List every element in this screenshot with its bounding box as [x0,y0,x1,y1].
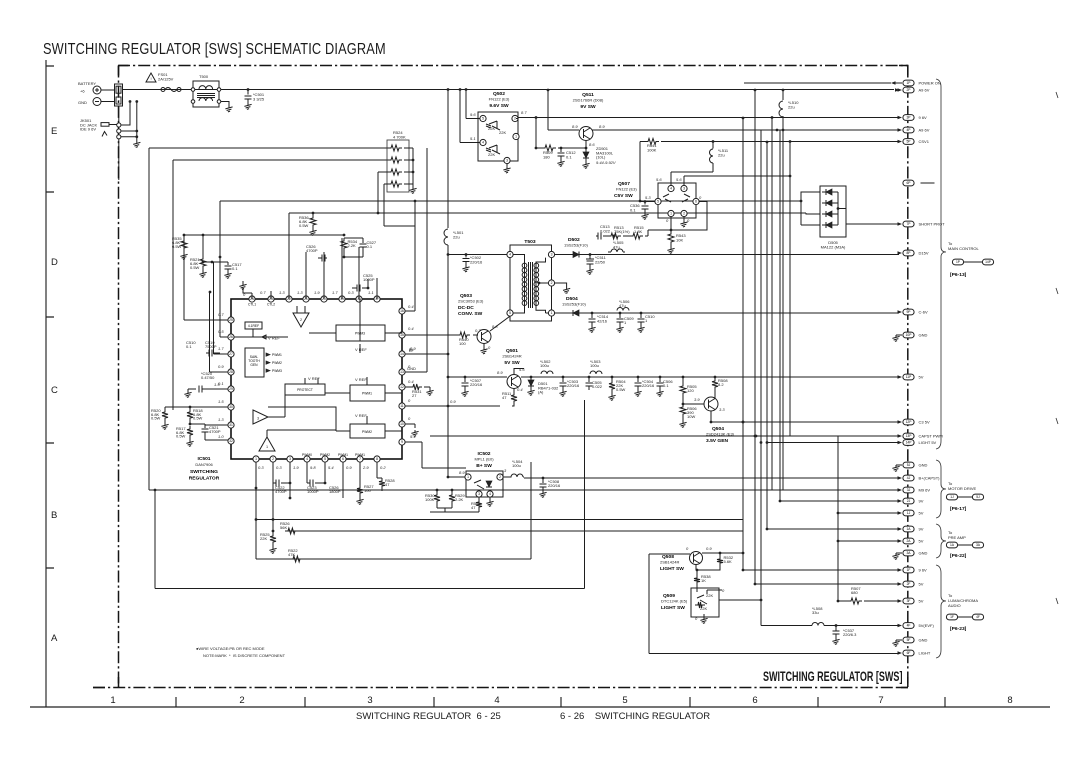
cap C523 1000P [310,480,313,487]
connector pin 5J GND [903,462,914,468]
svg-text:8: 8 [1007,695,1012,706]
svg-text:5.6: 5.6 [676,177,682,182]
svg-text:5: 5 [622,695,627,706]
svg-text:3: 3 [289,457,291,461]
wire pin14 B+ [405,353,448,355]
bus vertical 2 [754,90,756,584]
res R538 1K [694,575,700,585]
cap C521 4700P [204,424,206,428]
IC501 pin 28 [228,369,234,375]
wire rail 531 [288,530,743,532]
svg-text:CONV. SW: CONV. SW [458,311,483,317]
res R503 47 [478,497,480,499]
svg-text:22/50: 22/50 [595,259,606,264]
resistor R515 1.8K [623,235,630,237]
svg-text:4F: 4F [907,624,911,628]
svg-text:4: 4 [489,492,491,496]
svg-text:2.2K: 2.2K [348,243,357,248]
connector pin 2A 5V [903,538,914,544]
svg-text:0.4: 0.4 [408,326,414,331]
svg-text:C5V SW: C5V SW [614,193,633,199]
svg-text:C3 5V: C3 5V [919,420,930,425]
svg-text:22K: 22K [700,606,707,611]
svg-text:5: 5 [509,311,511,315]
svg-text:4: 4 [306,457,308,461]
wire Q511 base feed [548,90,579,130]
svg-text:1: 1 [118,89,120,93]
connector pin 8P D15V [903,250,914,256]
IC501 pin 20 [321,296,327,302]
IC right pin wires [405,148,500,468]
svg-text:●WIRE VOLTAGE:PB OR REC MODE: ●WIRE VOLTAGE:PB OR REC MODE [196,646,265,651]
svg-text:1: 1 [551,311,553,315]
connector pin 3A GND [903,550,914,556]
bus vertical 6 [779,130,781,501]
diode block D505 [820,186,846,237]
svg-text:IDE 9 6V: IDE 9 6V [80,127,96,132]
svg-text:8.9: 8.9 [599,124,605,129]
connector pin 2J 9V [903,498,914,504]
svg-text:MPL1 (E0): MPL1 (E0) [474,457,494,462]
svg-text:1800P: 1800P [329,489,341,494]
svg-text:0: 0 [408,416,411,421]
connector pin 3P 9 6V [903,115,914,121]
svg-text:REGULATOR: REGULATOR [189,476,220,482]
svg-text:(10L): (10L) [596,155,606,160]
transistor block Q509 [691,588,719,617]
bus vertical 5 [771,118,773,491]
svg-text:0.4: 0.4 [408,379,414,384]
IC502 block [466,471,503,497]
svg-text:1: 1 [255,457,257,461]
bus junction dots [742,117,745,120]
svg-text:9V SW: 9V SW [580,104,596,110]
IC501 pin 25 [228,317,234,323]
svg-text:5.6K: 5.6K [724,559,733,564]
svg-text:3 3/25: 3 3/25 [253,97,265,102]
svg-text:4 700K: 4 700K [393,135,406,140]
svg-text:5J: 5J [976,495,980,499]
svg-text:16: 16 [400,309,404,313]
svg-text:0.4: 0.4 [408,304,414,309]
wire LIGHT rail [700,653,899,655]
IC501 comparator 2 [293,313,309,327]
connector pin 10P GND [903,332,914,338]
wire 9V rail A [767,528,899,530]
svg-text:BATTERY: BATTERY [78,81,96,86]
svg-text:4700P: 4700P [306,248,318,253]
svg-text:V REF: V REF [268,336,280,341]
IC501 vref box [245,322,262,329]
capacitor C514 [591,312,594,315]
svg-text:2SD2413K (E3): 2SD2413K (E3) [706,432,735,437]
bus vertical 4 [766,142,768,529]
svg-text:2.9: 2.9 [362,465,369,470]
bracket To PRE AMP [936,524,946,558]
capacitor C511 [589,253,592,256]
IC501 pin 1 [253,456,259,462]
connector pin 13P CAPST PWM [903,433,914,439]
svg-text:3: 3 [478,492,480,496]
svg-text:[P6-17]: [P6-17] [950,506,967,512]
wire 5V rail A [838,540,899,542]
svg-text:220/16: 220/16 [567,383,580,388]
svg-text:3: 3 [367,695,372,706]
svg-text:26: 26 [229,335,233,339]
wire 9 6V rail F [743,569,899,571]
capacitor C504 [637,376,640,379]
svg-text:0.5W: 0.5W [172,244,182,249]
svg-text:9: 9 [401,440,403,444]
connector pin 4P A9 6V [903,127,914,133]
svg-text:5.6: 5.6 [519,367,525,372]
svg-text:(A): (A) [538,390,544,395]
connector pin 3J M9 6V [903,487,914,493]
wire 5V rail F [755,583,899,585]
svg-text:9 6V: 9 6V [919,568,928,573]
svg-text:8.6: 8.6 [589,142,595,147]
capacitor C512 [560,148,562,152]
svg-text:0: 0 [488,345,491,350]
wire Q508 wiring [696,553,743,575]
svg-text:22K: 22K [499,130,506,135]
svg-text:2SD1766R (D08): 2SD1766R (D08) [573,98,604,103]
svg-text:3J: 3J [907,488,911,492]
svg-text:1: 1 [670,212,672,216]
svg-text:2: 2 [551,281,553,285]
svg-text:12P: 12P [906,420,913,424]
svg-text:1J: 1J [907,511,911,515]
connector pin 14P LIGHT 5V [903,440,914,446]
transformer T503 [510,245,552,321]
wire loop B [173,159,391,161]
IC bottom pin wires [256,462,377,498]
svg-text:GND: GND [919,638,928,643]
svg-text:2: 2 [683,212,685,216]
svg-text:DAN7906: DAN7906 [195,462,213,467]
svg-text:4: 4 [509,253,511,257]
IC501 pin 17 [374,296,380,302]
svg-text:PWM2: PWM2 [362,430,372,434]
svg-text:10P: 10P [906,333,913,337]
svg-text:CAPST PWM: CAPST PWM [919,434,943,439]
svg-text:3: 3 [506,159,508,163]
wire rail 235 [184,234,344,236]
wire 5V rail J [838,512,899,514]
svg-text:100: 100 [364,488,371,493]
IC501 pin 32 [228,438,234,444]
svg-text:2: 2 [499,475,501,479]
bus vertical 9 [837,436,839,601]
svg-text:5.6: 5.6 [656,177,662,182]
svg-text:14P: 14P [985,260,992,264]
svg-text:8.9: 8.9 [572,124,578,129]
wire Q507 bottom [671,217,684,230]
svg-text:14: 14 [400,352,404,356]
IC501 pin 5 [322,456,328,462]
schematic chain border bottom [93,687,908,689]
svg-text:8.7: 8.7 [521,110,527,115]
svg-text:MAIN CONTROL: MAIN CONTROL [948,246,979,251]
svg-text:5.1: 5.1 [470,136,476,141]
svg-text:3F: 3F [907,599,911,603]
resistor R541 100K [640,141,645,143]
svg-text:2SB1424R: 2SB1424R [660,560,679,565]
svg-text:0.1: 0.1 [630,207,636,212]
svg-text:0.5W: 0.5W [299,223,309,228]
svg-text:33u: 33u [812,610,819,615]
svg-text:!: ! [150,76,151,81]
svg-text:9.6V SW: 9.6V SW [489,103,509,109]
svg-text:1: 1 [467,475,469,479]
svg-text:100K: 100K [647,147,657,152]
coil L511 22u [712,140,715,143]
IC501 pin 26 [228,334,234,340]
svg-text:0.1: 0.1 [186,344,192,349]
bracket To LUMA/CHROMA AUDIO [936,565,946,658]
IC501 pin 7 [357,456,363,462]
svg-text:11P: 11P [906,375,912,379]
svg-text:C: C [51,385,58,396]
svg-text:0.4: 0.4 [517,387,523,392]
svg-text:15: 15 [400,333,404,337]
wire Q509 out [719,599,761,601]
svg-text:5V: 5V [919,599,924,604]
svg-text:47: 47 [502,395,507,400]
svg-text:0.3: 0.3 [276,465,282,470]
svg-text:A9 6V: A9 6V [919,88,930,93]
svg-text:31: 31 [229,423,233,427]
fold marks right edge [1056,92,1058,604]
connector pin 6P nc [903,180,914,186]
wire connector pin2 drop [118,106,120,124]
resistor R509 180 [536,147,542,149]
svg-text:2F: 2F [907,582,911,586]
IC501 protect box [285,384,325,395]
IC501 pin 21 [303,296,309,302]
wire D505 inputs [801,192,820,225]
svg-text:1.9: 1.9 [293,465,299,470]
svg-text:2: 2 [272,457,274,461]
diode D504 [555,312,574,314]
bus vertical 1 [742,118,744,570]
wire pin2 down [272,483,274,520]
wire pin1 down [255,488,257,559]
wire Q507 right [671,202,707,231]
wire Q504 emitter [710,411,712,422]
svg-text:NOTE:MARK * IS DISCRETE COMP: NOTE:MARK * IS DISCRETE COMPONENT [203,653,286,658]
resistor R540 100 [405,334,457,336]
svg-text:[P6-13]: [P6-13] [950,272,967,278]
pin11 to protect [447,405,450,408]
wire 448 down2 [447,377,449,477]
resistor R511 47 [513,389,515,393]
wire Q502 pin5 feed [466,90,480,119]
svg-text:0.1: 0.1 [663,383,669,388]
svg-text:0.5W: 0.5W [193,416,203,421]
res R529 2.2K [449,492,455,504]
IC501 pin 4 [304,456,310,462]
svg-text:T500: T500 [199,74,209,79]
svg-text:A: A [51,633,58,644]
svg-text:PRE AMP: PRE AMP [948,535,966,540]
input connector CN501 [115,84,123,106]
svg-text:0.5W: 0.5W [151,416,161,421]
svg-text:LIGHT: LIGHT [919,651,931,656]
connector pin 1J 5V [903,510,914,516]
svg-text:GND: GND [407,366,416,371]
resistor R505 120 [682,376,685,379]
fuse FS01 [155,89,161,91]
IC501 pwm2 box [350,424,385,438]
IC pin24 gnd [242,287,244,289]
wire C-6V rail [592,312,899,314]
svg-text:0.1: 0.1 [367,244,373,249]
svg-text:100: 100 [459,341,466,346]
svg-text:9V: 9V [919,527,924,532]
svg-text:1: 1 [266,445,268,449]
IC501 comparator 1 [259,437,275,451]
wire jack to gnd [121,102,137,142]
IC left pin wires [184,235,228,372]
res R525 22K [272,520,274,534]
svg-text:5: 5 [657,200,659,204]
IC501 pin 12 [399,384,405,390]
svg-text:1.3: 1.3 [297,290,303,295]
svg-text:SWITCHING: SWITCHING [190,469,218,475]
svg-text:0.7: 0.7 [218,312,224,317]
svg-text:PWM2: PWM2 [272,361,282,365]
IC501 pin 3 [287,456,293,462]
svg-text:4F: 4F [976,615,980,619]
wire Q501 out [521,376,599,378]
svg-text:180: 180 [543,154,550,159]
svg-text:FN122 (E3): FN122 (E3) [489,97,510,102]
capacitor C536 [644,202,646,205]
IC501 pin 2 [270,456,276,462]
wire T500 sec gnd [221,102,229,106]
svg-text:47: 47 [471,505,476,510]
res R530 100K [434,492,440,504]
svg-text:[P6-22]: [P6-22] [950,553,967,559]
capacitor C510 [640,312,643,315]
bus vertical 8 [789,142,791,437]
svg-text:DTC124K (E5): DTC124K (E5) [661,599,688,604]
wire LIGHT 5V rail [767,442,899,444]
svg-text:220/16: 220/16 [470,382,483,387]
svg-text:0.1: 0.1 [218,381,224,386]
svg-text:V REF: V REF [355,347,367,352]
IC501 pin 14 [399,351,405,357]
svg-text:[P6-23]: [P6-23] [950,626,967,632]
svg-text:13P: 13P [906,434,913,438]
svg-text:1.7: 1.7 [218,346,224,351]
capacitor C509 [619,312,622,315]
transistor Q511 [579,127,593,141]
svg-text:3: 3 [551,253,553,257]
wire Q507 to rail236 [648,230,671,236]
svg-text:PWM1: PWM1 [272,353,282,357]
wire B+CAPST rail [524,477,899,479]
svg-text:29: 29 [229,387,233,391]
cap C517 0.1 [227,262,229,265]
IC501 pin 8 [374,456,380,462]
wire 5V rail [521,376,899,378]
bus vertical 7 [782,90,784,490]
transistor bridge Q507 [658,183,696,218]
wire Q502 pin4 feed [460,90,480,143]
svg-text:SWITCHING REGULATOR [SWS] SCHE: SWITCHING REGULATOR [SWS] SCHEMATIC DIAG… [43,40,386,57]
svg-text:1.5: 1.5 [218,399,224,404]
IC501 pin 18 [356,296,362,302]
svg-text:SWITCHING REGULATOR [SWS]: SWITCHING REGULATOR [SWS] [763,669,903,684]
resistor R506 390 [680,404,686,417]
svg-text:5: 5 [482,117,484,121]
IC501 pin 9 [399,439,405,445]
svg-text:1F: 1F [907,568,911,572]
bracket To MOTOR DRIVE [936,460,946,518]
cap C537 [835,624,838,627]
svg-text:1000P: 1000P [363,277,375,282]
svg-text:22K: 22K [260,536,267,541]
cap C508 [542,477,545,480]
res R534 2.2K [341,238,347,251]
svg-text:FN122 (E3): FN122 (E3) [616,187,637,192]
svg-text:B+(CAPST): B+(CAPST) [919,476,941,481]
wire M9 6V rail [149,489,899,491]
svg-text:0.5: 0.5 [218,329,224,334]
svg-text:100u: 100u [512,463,521,468]
schematic chain border top [118,65,908,67]
resistor R513 75K [608,233,621,239]
svg-text:0: 0 [408,398,411,403]
IC501 internal wires [267,299,402,437]
res R518 6.8K [189,407,191,409]
IC501 pin feeds top [243,213,377,299]
wire 448 down [447,354,449,377]
svg-text:1F: 1F [950,615,954,619]
svg-text:5V: 5V [919,375,924,380]
svg-text:10: 10 [400,422,404,426]
connector pin 5F GND [903,637,914,643]
wire loop C top [220,200,801,202]
wire Q511 collector [592,129,598,131]
svg-text:GND: GND [919,551,928,556]
svg-text:4J: 4J [907,476,911,480]
wire loop A left [148,148,150,490]
wire IC502 in [448,476,465,478]
connector pin 3F 5V [903,598,914,604]
resistor R504 22K [611,376,614,379]
IC501 outline [231,299,402,459]
svg-text:0.3: 0.3 [348,290,354,295]
svg-text:M9 6V: M9 6V [919,488,931,493]
svg-text:0.1: 0.1 [566,154,572,159]
res R531 27 [410,384,422,390]
svg-text:PWM1: PWM1 [362,392,372,396]
svg-text:V REF: V REF [355,377,367,382]
svg-text:CSV1: CSV1 [919,139,930,144]
svg-text:10K: 10K [676,237,683,242]
IC501 pwm1 box [350,385,385,401]
schematic chain border right [907,66,909,688]
svg-text:2SB1424R: 2SB1424R [502,354,521,359]
svg-text:GND: GND [919,463,928,468]
IC501 pin 15 [399,332,405,338]
svg-text:0.9: 0.9 [218,364,224,369]
svg-text:LIGHT 5V: LIGHT 5V [919,440,937,445]
svg-text:GND: GND [78,100,87,105]
